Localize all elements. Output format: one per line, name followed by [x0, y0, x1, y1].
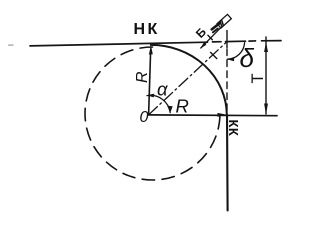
Т dimension arrowhead down [264, 104, 268, 115]
dashed vertical from vertex to КК (second tangent direction) [226, 49, 228, 113]
alpha arc arrowhead upper [147, 94, 155, 98]
dimension line Т vertical [265, 37, 267, 114]
Б dimension tick [208, 35, 212, 40]
svg-text:Т: Т [249, 73, 267, 83]
flag base thick stroke [212, 23, 220, 29]
svg-text:R: R [134, 71, 151, 83]
angle alpha arc at O [147, 95, 170, 112]
svg-text:δ: δ [240, 43, 255, 73]
svg-text:0: 0 [140, 109, 149, 126]
stray mark left margin [9, 44, 14, 46]
alpha arc arrowhead lower [167, 106, 173, 113]
dashed circle (construction circle, center O) [85, 47, 220, 180]
bisector dash-dot line O to vertex [149, 42, 227, 115]
flag symbol at vertex (survey stake) [217, 14, 231, 28]
vertex stub line above vertex [226, 31, 228, 48]
svg-text:НК: НК [134, 21, 160, 38]
wire tangent line top (first tangent through НК to vertex and beyond) [30, 41, 281, 46]
arrowhead at КК [218, 113, 228, 117]
Т dimension arrowhead up [264, 42, 268, 52]
dimension line Б (bisector dimension) [201, 28, 221, 48]
delta arc arrowhead [227, 57, 234, 61]
wire second tangent vertical below КК [226, 115, 229, 211]
arrowhead at НК [149, 45, 153, 55]
radius R vertical (O to НК) [149, 52, 151, 115]
arc of curve НК-КК (solid quarter arc) [151, 45, 227, 115]
flag base tick [213, 29, 218, 33]
svg-text:R: R [176, 95, 189, 116]
Б dimension arrowhead [200, 42, 206, 48]
tick across bisector [211, 52, 217, 58]
svg-text:α: α [157, 79, 168, 100]
angle delta arc at vertex [227, 43, 244, 60]
radius R horizontal (O to КК) and extension to T dimension [149, 114, 277, 117]
svg-text:Б: Б [193, 25, 209, 41]
svg-text:КК: КК [226, 120, 241, 137]
